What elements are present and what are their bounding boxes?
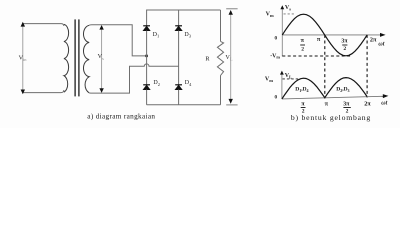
svg-text:D2,D3: D2,D3 bbox=[336, 87, 349, 94]
Vin annotation arrow bbox=[21, 22, 25, 95]
Vs annotation arrow bbox=[99, 25, 103, 93]
svg-text:2: 2 bbox=[343, 46, 346, 52]
diode D4 bbox=[175, 85, 182, 90]
transformer secondary winding L2 bbox=[83, 25, 89, 92]
transformer primary winding L1 bbox=[64, 24, 69, 92]
bottom plot x-axis bbox=[282, 94, 389, 99]
svg-text:D3: D3 bbox=[184, 32, 191, 39]
dashed vertical at 2pi bbox=[366, 35, 368, 98]
dashed Vm peak line top bbox=[284, 13, 296, 15]
wire left rail lower bbox=[146, 90, 148, 105]
svg-text:Vs: Vs bbox=[285, 5, 291, 12]
dashed vertical at pi bbox=[324, 35, 326, 99]
wire bridge bottom bbox=[147, 104, 221, 106]
diode D2 bbox=[143, 85, 150, 90]
svg-text:b) bentuk gelombang: b) bentuk gelombang bbox=[291, 113, 371, 122]
svg-text:D2: D2 bbox=[153, 80, 160, 87]
label pi/2 bottom bbox=[301, 102, 306, 115]
svg-text:3π: 3π bbox=[341, 39, 348, 45]
svg-text:D4: D4 bbox=[185, 80, 192, 87]
svg-text:ωt: ωt bbox=[381, 100, 387, 106]
wire right rail lower bbox=[178, 90, 180, 105]
dashed -Vm line bbox=[282, 55, 351, 57]
bottom plot y-axis bbox=[280, 71, 284, 99]
svg-text:VL: VL bbox=[285, 73, 292, 80]
transformer core bbox=[75, 19, 79, 96]
svg-text:D1,D4: D1,D4 bbox=[295, 86, 308, 93]
svg-text:D1: D1 bbox=[153, 32, 160, 39]
svg-text:0: 0 bbox=[275, 95, 278, 101]
wire right rail middle bbox=[178, 31, 180, 85]
label 3pi/2 top bbox=[341, 39, 348, 53]
wire RL branch bottom bbox=[220, 76, 222, 105]
svg-text:ωt: ωt bbox=[378, 42, 384, 48]
label pi/2 top bbox=[300, 38, 305, 52]
VL rectified curve bbox=[282, 78, 367, 99]
svg-text:-Vm: -Vm bbox=[270, 53, 280, 59]
svg-text:3π: 3π bbox=[343, 102, 350, 108]
VL annotation arrow bbox=[226, 9, 237, 105]
top plot y-axis bbox=[280, 5, 284, 56]
dashed Vm line bottom bbox=[283, 78, 299, 80]
top plot x-axis bbox=[282, 33, 385, 37]
node junction left rail bbox=[145, 55, 148, 57]
label 3pi/2 bottom bbox=[343, 102, 351, 115]
wire primary top bbox=[23, 24, 64, 26]
wire secondary top to bridge bbox=[89, 25, 146, 56]
wire secondary bottom to bridge (crossover hop) bbox=[89, 64, 178, 93]
svg-text:0: 0 bbox=[275, 35, 278, 41]
svg-text:2π: 2π bbox=[370, 36, 377, 43]
wire primary bottom bbox=[23, 90, 64, 93]
svg-text:2π: 2π bbox=[364, 101, 371, 108]
wire left rail middle bbox=[146, 31, 148, 85]
svg-text:Vm: Vm bbox=[266, 11, 274, 18]
wire RL branch top bbox=[220, 10, 222, 41]
svg-text:Vm: Vm bbox=[265, 77, 273, 84]
diode D3 bbox=[175, 26, 182, 31]
svg-text:2: 2 bbox=[301, 47, 304, 53]
resistor RL bbox=[217, 41, 223, 75]
wire right rail upper bbox=[178, 10, 180, 26]
svg-text:a) diagram rangkaian: a) diagram rangkaian bbox=[87, 113, 155, 121]
Vs sine curve bbox=[282, 14, 367, 56]
wire left rail upper bbox=[146, 10, 148, 26]
diode D1 bbox=[143, 26, 150, 31]
wire bridge top bbox=[147, 9, 221, 11]
